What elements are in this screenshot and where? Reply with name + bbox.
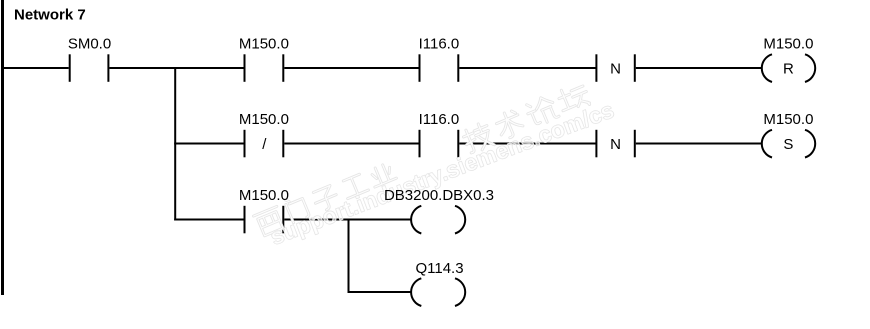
watermark hanzi men: [284, 194, 309, 223]
watermark hanzi gong: [341, 173, 369, 198]
contact SM0.0: [70, 54, 109, 82]
svg-text:M150.0: M150.0: [239, 36, 289, 53]
wire N to S coil: [636, 143, 762, 145]
svg-text:N: N: [610, 136, 621, 153]
svg-text:SM0.0: SM0.0: [68, 36, 111, 53]
svg-text:R: R: [783, 60, 794, 77]
svg-text:M150.0: M150.0: [239, 111, 289, 128]
svg-text:N: N: [610, 60, 621, 77]
coil S M150.0: [762, 130, 815, 158]
wire SM0.0 to M150.0: [109, 67, 244, 69]
wire rail to SM0.0: [1, 67, 69, 69]
wire M150.0 to I116.0: [284, 67, 419, 69]
junction vertical row3 to row4: [348, 219, 350, 294]
contact M150.0 row1: [245, 54, 284, 82]
svg-text:M150.0: M150.0: [763, 36, 813, 53]
contact M150.0 NC row2: [245, 130, 284, 158]
wire branch to M150.0 row2: [174, 143, 244, 145]
svg-text:Network 7: Network 7: [14, 7, 86, 24]
svg-text:I116.0: I116.0: [419, 111, 460, 128]
contact M150.0 row3: [245, 206, 284, 234]
watermark url text: [267, 96, 618, 249]
negative edge detector N row2: [596, 130, 634, 158]
coil Q114.3: [411, 278, 465, 306]
watermark: [254, 82, 618, 250]
svg-text:Q114.3: Q114.3: [415, 260, 463, 277]
watermark hanzi xi: [254, 206, 286, 236]
watermark hanzi ji: [461, 121, 495, 155]
svg-text:DB3200.DBX0.3: DB3200.DBX0.3: [384, 187, 494, 204]
svg-text:S: S: [783, 136, 793, 153]
wire M150.0 to I116.0 row2: [284, 143, 419, 145]
wire N to R coil: [636, 67, 762, 69]
watermark hanzi lun: [524, 94, 559, 128]
coil DB3200.DBX0.3: [411, 206, 465, 234]
left power rail: [1, 0, 4, 295]
watermark hanzi tan: [555, 82, 591, 115]
svg-text:M150.0: M150.0: [763, 111, 813, 128]
contact I116.0 row2: [420, 130, 459, 158]
wire I116.0 to N box row1: [459, 67, 596, 69]
branch vertical from row1 to row3: [174, 67, 176, 221]
wire junction to coil row4: [348, 291, 412, 293]
watermark hanzi shu: [494, 108, 525, 140]
wire branch to M150.0 row3: [174, 219, 244, 221]
watermark hanzi ye: [368, 162, 396, 187]
svg-text:M150.0: M150.0: [239, 187, 289, 204]
contact I116.0 row1: [420, 54, 459, 82]
wire I116.0 to N box row2: [459, 143, 596, 145]
wire M150.0 to output coil row3: [284, 219, 411, 221]
watermark hanzi zi: [311, 185, 340, 213]
coil R M150.0: [762, 54, 815, 82]
svg-text:I116.0: I116.0: [419, 36, 460, 53]
negative edge detector N row1: [596, 54, 634, 82]
